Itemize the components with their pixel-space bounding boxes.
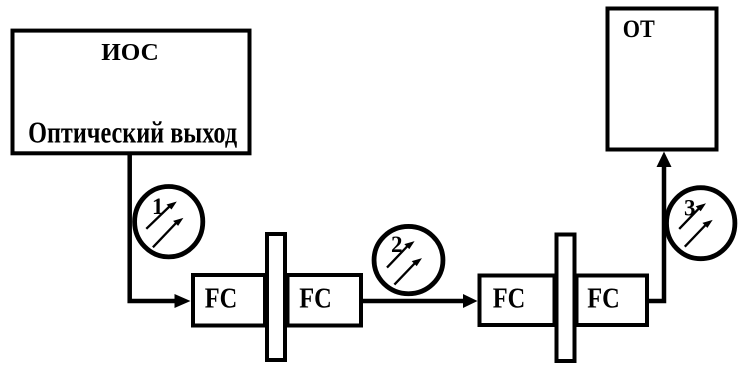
svg-text:FC: FC <box>587 284 620 315</box>
svg-text:FC: FC <box>205 284 238 315</box>
svg-text:2: 2 <box>391 232 403 257</box>
svg-text:ОТ: ОТ <box>623 16 655 43</box>
svg-text:1: 1 <box>152 194 164 219</box>
svg-text:FC: FC <box>299 284 332 315</box>
svg-text:ИОС: ИОС <box>101 39 159 66</box>
svg-text:3: 3 <box>684 196 696 221</box>
svg-text:FC: FC <box>493 284 526 315</box>
svg-text:Оптический выход: Оптический выход <box>28 114 237 149</box>
